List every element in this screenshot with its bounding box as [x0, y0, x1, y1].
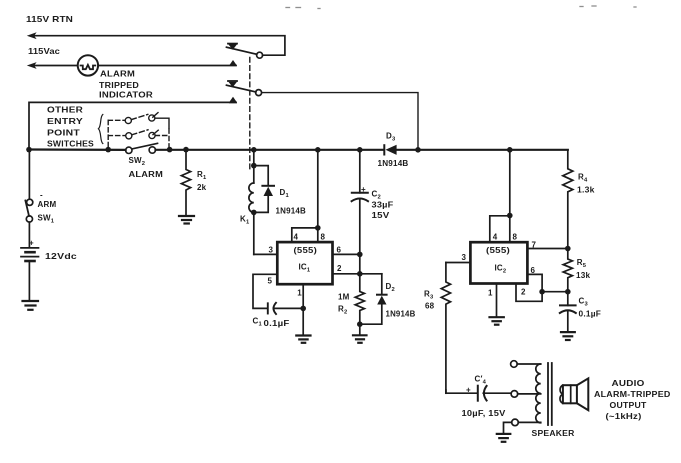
switch other entry row1 — [108, 113, 169, 147]
lamp alarm tripped indicator — [78, 55, 98, 75]
svg-text:SPEAKER: SPEAKER — [532, 429, 575, 438]
wire main bus — [29, 148, 126, 151]
pin 6 wire IC1 — [333, 253, 360, 255]
ground speaker tap — [504, 422, 512, 432]
battery 12Vdc — [28, 222, 30, 247]
pins 4 8 bracket IC2 — [490, 216, 510, 242]
brace — [98, 115, 102, 144]
transformer T1 core — [547, 363, 549, 425]
op-amp IC1 555 — [277, 242, 332, 284]
pin 2 loop IC2 — [516, 284, 542, 302]
op-amp IC2 555 — [470, 242, 527, 283]
label ALARM TRIPPED INDICATOR — [99, 70, 153, 100]
pin 1 wire IC1 to ground — [302, 284, 304, 334]
wire bus to IC2 pin8 — [509, 152, 511, 242]
diode D1 1N914B — [254, 166, 268, 185]
svg-text:(~1kHz): (~1kHz) — [606, 412, 642, 421]
svg-text:+: + — [361, 185, 366, 194]
label OTHER ENTRY POINT SWITCHES — [47, 106, 94, 149]
svg-text:0.1µF: 0.1µF — [264, 319, 290, 328]
pin 3 wire IC2 — [446, 262, 471, 264]
svg-text:68: 68 — [425, 302, 435, 311]
svg-text:INDICATOR: INDICATOR — [99, 91, 153, 100]
svg-text:15V: 15V — [372, 211, 391, 220]
ground battery — [23, 301, 39, 310]
capacitor C4 10uF — [445, 390, 447, 393]
capacitor C3 0.1uF — [567, 292, 569, 306]
svg-text:2k: 2k — [197, 183, 207, 192]
transformer T1 taps — [511, 361, 518, 368]
svg-text:10µF, 15V: 10µF, 15V — [462, 409, 507, 418]
diode D3 1N914B — [383, 145, 385, 154]
svg-text:6: 6 — [337, 246, 342, 255]
svg-text:115V RTN: 115V RTN — [26, 14, 73, 24]
pins 4 8 bracket IC1 — [292, 228, 318, 242]
svg-text:1N914B: 1N914B — [386, 310, 416, 319]
svg-text:POINT: POINT — [47, 129, 80, 138]
svg-text:ENTRY: ENTRY — [47, 117, 84, 126]
svg-text:-: - — [40, 191, 43, 200]
switch SW2 — [126, 147, 132, 153]
ground R1 — [179, 216, 194, 224]
svg-text:+: + — [466, 385, 471, 394]
svg-text:5: 5 — [268, 277, 273, 286]
mechanical link dashed left — [107, 120, 109, 148]
resistor R2 1M — [355, 276, 364, 324]
svg-text:1: 1 — [488, 289, 493, 298]
svg-text:OUTPUT: OUTPUT — [610, 401, 647, 410]
wire 115V RTN line — [34, 36, 285, 56]
pin 2 wire IC1 — [333, 273, 382, 275]
pin 5 wire and capacitor C1 — [253, 274, 277, 308]
pin 7 wire IC2 — [527, 248, 567, 250]
ground C3 — [561, 332, 575, 340]
label AUDIO ALARM-TRIPPED OUTPUT — [594, 379, 671, 421]
switch SW1 ARM — [28, 152, 30, 199]
svg-text:(555): (555) — [294, 246, 318, 255]
svg-text:SWITCHES: SWITCHES — [47, 140, 94, 149]
label SPEAKER — [532, 429, 575, 438]
transformer T1 primary winding — [536, 364, 541, 423]
node coil top — [251, 163, 257, 169]
ground R2 — [359, 324, 361, 334]
svg-text:3: 3 — [462, 253, 467, 262]
diode D2 1N914B — [381, 274, 383, 294]
svg-text:115Vac: 115Vac — [28, 46, 60, 56]
svg-text:8: 8 — [513, 233, 518, 242]
pin 1 wire IC2 to ground — [496, 284, 498, 317]
speaker — [560, 385, 563, 403]
svg-text:8: 8 — [321, 233, 326, 242]
wire 115Vac line — [34, 65, 78, 67]
svg-text:0.1µF: 0.1µF — [579, 310, 602, 319]
svg-text:1N914B: 1N914B — [276, 207, 307, 216]
svg-text:2: 2 — [337, 264, 342, 273]
svg-text:4: 4 — [493, 233, 498, 242]
resistor R3 68 — [441, 263, 450, 394]
svg-text:1N914B: 1N914B — [378, 159, 409, 168]
relay contact K1b — [256, 90, 262, 96]
svg-text:13k: 13k — [576, 271, 591, 280]
pin 6 wire IC2 — [527, 274, 542, 291]
svg-text:1: 1 — [297, 289, 302, 298]
svg-text:3: 3 — [269, 246, 274, 255]
relay contact K1a — [257, 52, 263, 58]
svg-text:ALARM: ALARM — [100, 70, 135, 79]
svg-text:6: 6 — [531, 266, 536, 275]
svg-text:AUDIO: AUDIO — [612, 379, 645, 388]
svg-text:+: + — [29, 239, 34, 248]
ground C1 — [296, 336, 310, 343]
specks top — [286, 6, 636, 9]
svg-text:OTHER: OTHER — [47, 106, 83, 115]
svg-text:ALARM-TRIPPED: ALARM-TRIPPED — [594, 390, 671, 399]
svg-text:2: 2 — [521, 288, 526, 297]
resistor R1 2k — [181, 152, 190, 215]
svg-text:TRIPPED: TRIPPED — [99, 81, 139, 90]
svg-text:1.3k: 1.3k — [577, 186, 595, 195]
svg-text:12Vdc: 12Vdc — [45, 252, 77, 261]
wire contact K1b to bus — [262, 93, 418, 150]
svg-text:4: 4 — [294, 233, 299, 242]
wire indicator line — [29, 102, 236, 149]
mechanical link dashed — [249, 58, 251, 172]
node bus junctions — [26, 147, 512, 153]
svg-text:ARM: ARM — [38, 200, 57, 209]
svg-text:ALARM: ALARM — [129, 170, 164, 179]
svg-text:1M: 1M — [338, 293, 350, 302]
resistor R4 1.3k — [563, 150, 573, 249]
pin 3 wire IC1 — [254, 253, 277, 255]
switch other entry row2 — [108, 130, 167, 139]
wire pin2/6 to C3 — [542, 291, 568, 293]
capacitor C2 33uF — [359, 152, 361, 193]
svg-text:(555): (555) — [486, 246, 510, 255]
svg-text:33µF: 33µF — [372, 201, 394, 210]
resistor R5 13k — [563, 249, 572, 292]
relay coil K1 — [253, 152, 255, 183]
svg-text:7: 7 — [532, 241, 537, 250]
